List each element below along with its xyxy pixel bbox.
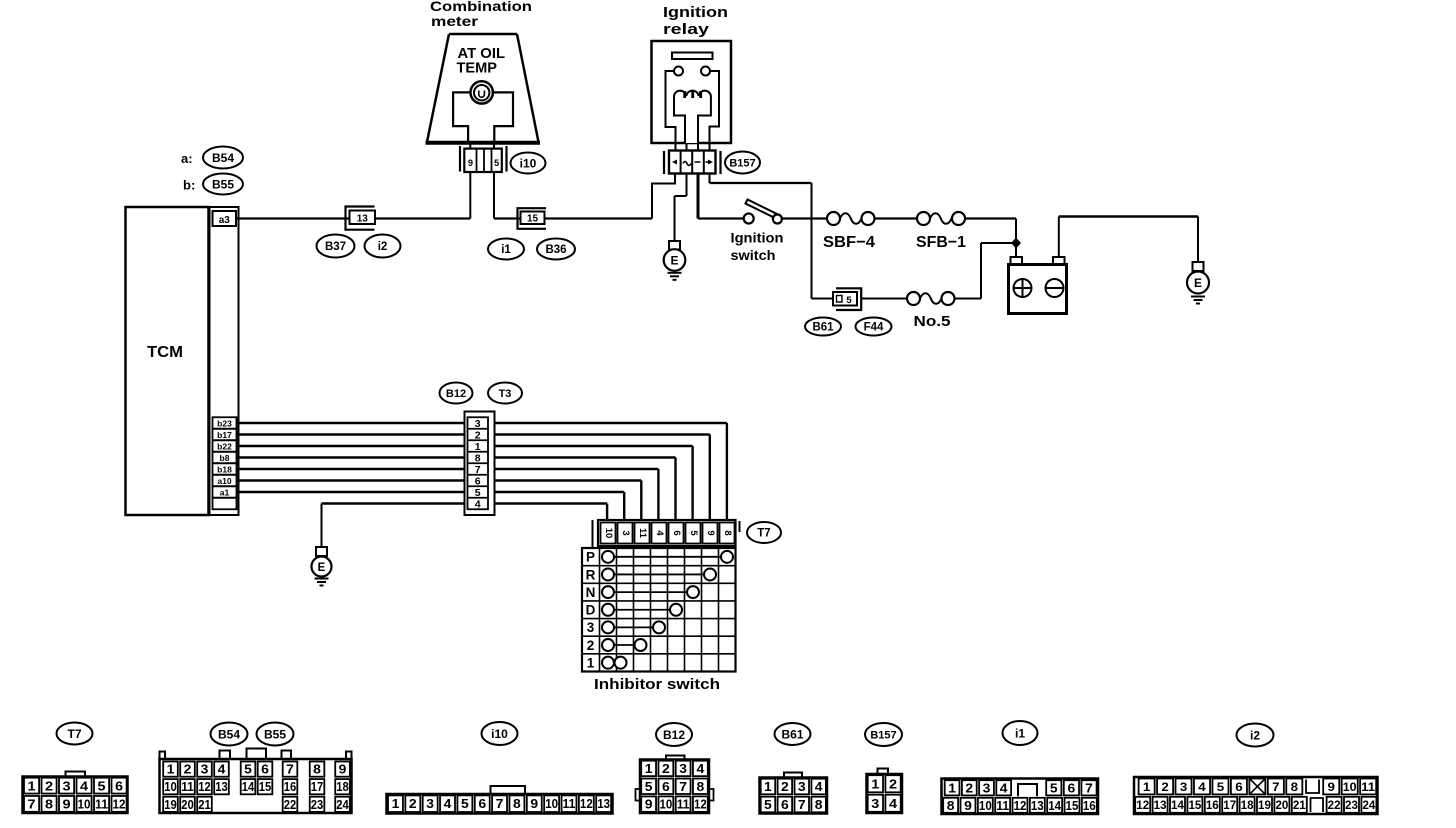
svg-text:16: 16	[1083, 799, 1096, 813]
svg-text:6: 6	[781, 798, 789, 812]
oval label i10 (pinout)	[482, 722, 518, 745]
svg-text:3: 3	[798, 780, 806, 794]
svg-text:7: 7	[496, 797, 504, 811]
relay internal wire left	[666, 71, 676, 143]
inhibitor contact row 2	[587, 638, 647, 653]
svg-text:5: 5	[688, 530, 699, 536]
svg-text:4: 4	[815, 780, 823, 794]
svg-text:12: 12	[1136, 798, 1149, 812]
wire	[1059, 217, 1198, 263]
svg-text:2: 2	[184, 763, 192, 777]
ground E (TCM)	[312, 547, 332, 586]
svg-text:1: 1	[764, 780, 772, 794]
connector B54/B55 pinout	[160, 749, 352, 814]
oval label B55	[203, 174, 243, 195]
svg-text:8: 8	[45, 797, 53, 812]
svg-text:6: 6	[1235, 780, 1243, 794]
connector i1 pinout	[942, 779, 1099, 815]
svg-text:24: 24	[1362, 798, 1375, 812]
svg-text:b:: b:	[183, 178, 195, 193]
svg-text:16: 16	[284, 780, 297, 794]
relay internal wire right	[710, 71, 720, 143]
oval label T7 (inhibitor)	[747, 522, 781, 543]
svg-text:i1: i1	[501, 244, 511, 256]
svg-text:21: 21	[1293, 798, 1306, 812]
svg-text:10: 10	[660, 798, 673, 812]
svg-text:1: 1	[645, 762, 653, 776]
svg-text:SBF−4: SBF−4	[823, 234, 875, 251]
svg-text:2: 2	[965, 781, 973, 795]
wire	[675, 174, 687, 242]
wire	[237, 446, 693, 521]
svg-text:18: 18	[1241, 798, 1254, 812]
AT OIL TEMP label	[457, 45, 506, 77]
svg-text:Ignition: Ignition	[663, 4, 728, 21]
pin box empty	[213, 498, 237, 510]
svg-text:7: 7	[475, 464, 481, 476]
svg-text:7: 7	[1085, 781, 1093, 795]
svg-text:3: 3	[620, 530, 631, 535]
svg-text:3: 3	[475, 418, 481, 430]
svg-text:B157: B157	[870, 729, 896, 741]
svg-text:14: 14	[1048, 799, 1061, 813]
connector i10 (meter)	[460, 146, 507, 172]
svg-text:1: 1	[871, 776, 879, 791]
svg-text:B12: B12	[446, 388, 466, 400]
oval label B37	[317, 235, 355, 258]
pin a3	[213, 211, 237, 226]
svg-text:23: 23	[311, 798, 324, 812]
wire	[494, 217, 652, 219]
wire	[698, 217, 745, 219]
svg-text:9: 9	[339, 763, 347, 777]
svg-text:11: 11	[1361, 780, 1375, 794]
svg-text:4: 4	[889, 796, 898, 811]
svg-text:2: 2	[587, 638, 595, 653]
wire	[237, 435, 710, 522]
relay box	[652, 41, 732, 143]
svg-text:13: 13	[597, 797, 610, 811]
svg-text:13: 13	[1154, 798, 1167, 812]
svg-text:3: 3	[679, 762, 687, 776]
relay coil	[674, 91, 711, 143]
svg-text:5: 5	[846, 295, 852, 306]
svg-text:a:: a:	[181, 151, 193, 166]
oval label B61	[805, 318, 841, 336]
label a:	[181, 151, 193, 166]
oval label T3 (mid)	[488, 383, 522, 404]
fuse SBF-4	[827, 212, 875, 225]
svg-text:b23: b23	[217, 418, 232, 428]
svg-text:Ignition: Ignition	[731, 230, 784, 246]
svg-text:T3: T3	[499, 388, 512, 400]
wire	[469, 172, 471, 219]
svg-text:B157: B157	[729, 157, 755, 169]
label SFB-1	[916, 234, 966, 251]
svg-text:a1: a1	[220, 487, 230, 497]
svg-text:b18: b18	[217, 464, 232, 474]
svg-text:meter: meter	[431, 13, 479, 29]
inhibitor contact row D	[586, 603, 682, 618]
svg-text:4: 4	[444, 797, 452, 811]
svg-text:5: 5	[244, 763, 252, 777]
inhibitor switch label	[594, 677, 720, 693]
svg-text:6: 6	[662, 780, 670, 794]
svg-text:12: 12	[113, 797, 126, 812]
wire	[470, 144, 494, 149]
oval label i10	[511, 153, 546, 174]
pin a1	[213, 486, 237, 498]
oval label i2	[365, 235, 401, 258]
connector B (B61/F44)	[833, 288, 861, 310]
svg-text:R: R	[586, 567, 596, 582]
pin b22	[213, 440, 237, 452]
junction	[1011, 238, 1021, 249]
wire	[811, 183, 813, 299]
svg-text:6: 6	[1068, 781, 1076, 795]
ground E (battery)	[1187, 262, 1209, 304]
lamp AT OIL TEMP	[471, 81, 493, 103]
svg-text:6: 6	[115, 778, 123, 793]
svg-text:3: 3	[63, 778, 71, 793]
svg-text:a10: a10	[217, 476, 231, 486]
svg-text:7: 7	[28, 797, 36, 812]
svg-text:B61: B61	[812, 322, 834, 334]
oval label i2 (pinout)	[1237, 724, 1274, 747]
svg-text:i1: i1	[1015, 726, 1025, 740]
svg-text:Inhibitor switch: Inhibitor switch	[594, 677, 720, 693]
svg-text:E: E	[670, 254, 678, 268]
svg-text:TCM: TCM	[147, 344, 183, 361]
wire	[237, 492, 625, 521]
svg-text:2: 2	[662, 762, 670, 776]
svg-text:5: 5	[764, 798, 772, 812]
oval label B54	[203, 147, 243, 169]
svg-text:F44: F44	[864, 322, 884, 334]
svg-text:b8: b8	[220, 453, 230, 463]
pin a10	[213, 475, 237, 487]
ignition switch	[744, 200, 782, 224]
svg-text:B12: B12	[663, 728, 685, 742]
svg-text:12: 12	[580, 797, 593, 811]
svg-text:4: 4	[1000, 781, 1008, 795]
svg-text:20: 20	[181, 798, 194, 812]
svg-text:12: 12	[694, 798, 707, 812]
svg-text:6: 6	[475, 475, 481, 487]
svg-text:5: 5	[645, 780, 653, 794]
svg-text:4: 4	[697, 762, 705, 776]
svg-text:12: 12	[198, 780, 211, 794]
svg-text:2: 2	[889, 776, 897, 791]
svg-text:9: 9	[468, 158, 473, 168]
wire	[652, 174, 675, 219]
svg-text:2: 2	[1161, 780, 1169, 794]
svg-text:21: 21	[198, 798, 211, 812]
wire	[875, 217, 918, 219]
svg-text:3: 3	[871, 796, 879, 811]
pin b8	[213, 452, 237, 464]
svg-text:9: 9	[63, 797, 71, 812]
pin b17	[213, 429, 237, 441]
svg-text:19: 19	[1258, 798, 1271, 812]
svg-text:5: 5	[1050, 781, 1058, 795]
svg-text:11: 11	[563, 797, 576, 811]
svg-text:13: 13	[357, 213, 369, 224]
svg-text:10: 10	[78, 797, 91, 812]
svg-text:5: 5	[98, 778, 106, 793]
svg-text:22: 22	[284, 798, 297, 812]
label b:	[183, 178, 195, 193]
wire	[812, 298, 834, 300]
relay coil terminal right	[701, 67, 710, 76]
svg-text:7: 7	[286, 763, 294, 777]
svg-text:6: 6	[671, 530, 682, 535]
svg-text:i2: i2	[1250, 728, 1260, 742]
svg-text:1: 1	[948, 781, 956, 795]
svg-text:16: 16	[1206, 798, 1219, 812]
svg-text:E: E	[318, 562, 326, 574]
ignition relay label	[663, 4, 728, 38]
svg-text:10: 10	[603, 528, 614, 539]
svg-text:22: 22	[1328, 798, 1341, 812]
connector B61 pinout	[760, 773, 828, 814]
wire	[861, 298, 907, 300]
svg-text:1: 1	[475, 441, 481, 453]
svg-text:3: 3	[587, 620, 595, 635]
fuse No.5	[907, 292, 955, 305]
svg-text:2: 2	[45, 778, 53, 793]
wire	[965, 219, 1016, 258]
svg-text:15: 15	[259, 780, 272, 794]
wire	[697, 174, 700, 219]
svg-text:8: 8	[1291, 780, 1299, 794]
svg-text:relay: relay	[663, 21, 710, 38]
oval label B61 (pinout)	[775, 723, 811, 745]
combination meter label	[430, 0, 532, 29]
svg-text:1: 1	[28, 778, 36, 793]
svg-text:switch: switch	[731, 247, 776, 263]
lamp holder block	[453, 92, 513, 142]
oval label B54 (pinout)	[211, 723, 248, 746]
svg-text:11: 11	[996, 799, 1009, 813]
svg-text:11: 11	[181, 780, 194, 794]
oval label F44	[856, 318, 892, 336]
svg-text:15: 15	[1066, 799, 1079, 813]
svg-text:13: 13	[215, 780, 228, 794]
svg-text:5: 5	[1217, 780, 1225, 794]
svg-text:D: D	[586, 603, 596, 618]
svg-text:8: 8	[722, 530, 733, 535]
svg-text:7: 7	[679, 780, 687, 794]
wire	[237, 423, 727, 521]
svg-text:N: N	[586, 585, 596, 600]
svg-text:1: 1	[392, 797, 400, 811]
TCM label	[147, 344, 183, 361]
svg-text:9: 9	[1328, 780, 1336, 794]
svg-text:9: 9	[530, 797, 538, 811]
svg-text:7: 7	[1272, 780, 1280, 794]
svg-text:2: 2	[409, 797, 417, 811]
svg-text:10: 10	[545, 797, 558, 811]
svg-text:3: 3	[426, 797, 434, 811]
wire	[237, 458, 676, 522]
svg-text:B61: B61	[781, 727, 803, 741]
oval label B36	[537, 239, 575, 260]
oval label T7 (pinout)	[57, 723, 93, 745]
connector B157 (relay)	[664, 151, 721, 175]
wire	[676, 143, 710, 151]
svg-text:4: 4	[654, 530, 665, 536]
svg-text:1: 1	[587, 655, 595, 670]
svg-text:15: 15	[527, 214, 539, 225]
svg-text:8: 8	[947, 799, 955, 813]
combination meter housing	[426, 34, 541, 143]
svg-text:4: 4	[80, 778, 89, 793]
svg-text:10: 10	[1343, 780, 1357, 794]
svg-text:11: 11	[95, 797, 108, 812]
TCM box	[126, 207, 209, 515]
svg-text:T7: T7	[757, 528, 770, 540]
connector T7 (inhibitor)	[593, 520, 740, 548]
svg-text:11: 11	[637, 528, 648, 539]
svg-text:18: 18	[336, 780, 349, 794]
svg-text:15: 15	[1188, 798, 1201, 812]
inhibitor contact row N	[586, 585, 699, 600]
wire	[237, 469, 659, 521]
oval label i1	[488, 239, 524, 260]
svg-text:3: 3	[1180, 780, 1188, 794]
label No.5	[914, 314, 951, 330]
oval label B55 (pinout)	[257, 723, 294, 746]
svg-text:a3: a3	[219, 215, 231, 226]
svg-text:B55: B55	[264, 727, 286, 741]
svg-text:7: 7	[798, 798, 806, 812]
svg-text:2: 2	[781, 780, 789, 794]
label SBF-4	[823, 234, 875, 251]
svg-text:2: 2	[475, 429, 481, 441]
svg-text:8: 8	[513, 797, 521, 811]
pin b18	[213, 463, 237, 475]
svg-text:8: 8	[815, 798, 823, 812]
inhibitor switch grid	[582, 548, 736, 672]
connector B157 pinout	[867, 769, 903, 814]
wire	[955, 243, 1017, 299]
svg-text:4: 4	[218, 763, 226, 777]
pin b23	[213, 417, 237, 429]
svg-text:9: 9	[964, 799, 972, 813]
svg-text:10: 10	[979, 799, 992, 813]
svg-text:P: P	[586, 550, 595, 565]
svg-text:b22: b22	[217, 441, 232, 451]
svg-text:3: 3	[201, 763, 209, 777]
svg-text:No.5: No.5	[914, 314, 951, 330]
battery	[1009, 257, 1067, 314]
svg-text:B37: B37	[325, 241, 346, 253]
svg-text:8: 8	[313, 763, 321, 777]
inhibitor contact row P	[586, 550, 733, 565]
svg-text:5: 5	[494, 158, 499, 168]
TCM connector strip	[210, 207, 239, 515]
svg-text:14: 14	[242, 780, 255, 794]
wire	[322, 504, 608, 522]
connector T7 pinout	[23, 772, 128, 814]
svg-text:17: 17	[1223, 798, 1236, 812]
ignition switch label	[731, 230, 784, 264]
relay top bar	[672, 53, 713, 60]
svg-text:9: 9	[645, 798, 653, 812]
svg-text:4: 4	[475, 498, 481, 510]
svg-text:B36: B36	[545, 244, 566, 256]
wire	[237, 481, 642, 522]
inhibitor contact row 1	[587, 655, 627, 670]
svg-text:1: 1	[167, 763, 175, 777]
connector B12 pinout	[636, 756, 714, 814]
svg-text:B54: B54	[212, 151, 234, 165]
wire	[321, 504, 323, 548]
svg-text:10: 10	[164, 780, 177, 794]
svg-text:9: 9	[705, 530, 716, 535]
connector 13 (B37/i2)	[346, 207, 376, 230]
svg-text:i10: i10	[491, 727, 508, 741]
svg-text:4: 4	[1198, 780, 1206, 794]
svg-text:19: 19	[164, 798, 177, 812]
svg-text:T7: T7	[67, 727, 81, 741]
relay coil terminal left	[674, 67, 683, 76]
svg-text:TEMP: TEMP	[457, 60, 498, 77]
oval label B12 (pinout)	[656, 723, 692, 746]
svg-text:13: 13	[1031, 799, 1044, 813]
svg-text:5: 5	[461, 797, 469, 811]
ground E (relay)	[664, 241, 686, 280]
inhibitor contact row R	[586, 567, 716, 582]
wire	[710, 174, 812, 184]
oval label B157 (pinout)	[865, 723, 902, 746]
svg-text:Combination: Combination	[430, 0, 532, 14]
connector i2 pinout	[1134, 777, 1378, 814]
svg-text:B54: B54	[218, 727, 240, 741]
wire	[783, 217, 828, 219]
svg-text:17: 17	[311, 780, 324, 794]
inhibitor contact row 3	[587, 620, 665, 635]
svg-text:11: 11	[677, 798, 690, 812]
svg-text:b17: b17	[217, 430, 232, 440]
svg-text:E: E	[1194, 276, 1202, 290]
svg-text:12: 12	[1014, 799, 1027, 813]
svg-text:3: 3	[983, 781, 991, 795]
oval label B12 (mid)	[440, 383, 473, 404]
wire	[237, 217, 471, 219]
svg-text:24: 24	[336, 798, 349, 812]
svg-text:8: 8	[475, 452, 481, 464]
svg-text:1: 1	[1143, 780, 1151, 794]
oval label B157 (relay)	[725, 152, 760, 174]
wire	[493, 172, 495, 219]
fuse SFB-1	[917, 212, 965, 225]
svg-text:SFB−1: SFB−1	[916, 234, 966, 251]
svg-text:B55: B55	[212, 177, 234, 191]
svg-text:20: 20	[1275, 798, 1288, 812]
svg-text:5: 5	[475, 487, 481, 499]
svg-text:6: 6	[261, 763, 269, 777]
svg-text:14: 14	[1171, 798, 1184, 812]
svg-text:23: 23	[1345, 798, 1358, 812]
svg-text:i2: i2	[378, 241, 388, 253]
svg-text:8: 8	[697, 780, 705, 794]
connector i10 pinout	[387, 786, 613, 814]
connector B12/T3 (mid)	[465, 412, 495, 516]
svg-text:6: 6	[478, 797, 486, 811]
connector 15 (i1/B36)	[518, 208, 547, 229]
